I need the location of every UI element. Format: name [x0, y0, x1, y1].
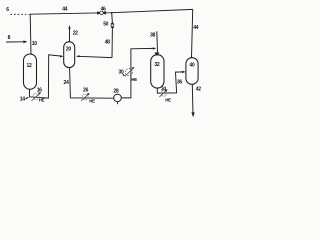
vessel 20 — [64, 42, 75, 68]
svg-text:36: 36 — [177, 80, 182, 86]
svg-text:22: 22 — [73, 30, 78, 36]
svg-text:44: 44 — [193, 25, 198, 31]
vessel 12 — [24, 54, 37, 89]
valve 46 — [97, 11, 101, 15]
svg-text:16: 16 — [37, 87, 42, 93]
vessel 40 — [186, 58, 198, 85]
svg-text:40: 40 — [189, 62, 194, 68]
wire stream 6 dotted feed — [11, 13, 30, 15]
svg-text:34: 34 — [161, 86, 166, 92]
svg-text:44: 44 — [62, 7, 67, 13]
svg-text:26: 26 — [83, 88, 88, 94]
svg-text:46: 46 — [101, 7, 106, 13]
svg-text:HE: HE — [39, 98, 45, 103]
svg-text:48: 48 — [105, 40, 110, 46]
svg-text:42: 42 — [196, 87, 201, 93]
wire bottom product arrow 42 — [191, 84, 194, 114]
svg-text:32: 32 — [154, 62, 159, 68]
svg-text:50: 50 — [103, 21, 108, 27]
svg-text:20: 20 — [66, 47, 71, 53]
wire vessel 20 bottoms 24 — [70, 68, 114, 99]
svg-text:HE: HE — [165, 98, 171, 103]
heat exchanger HE26 — [82, 94, 88, 100]
svg-text:28: 28 — [113, 89, 118, 95]
wire feed arrow 8 — [6, 41, 25, 43]
wire left downcomer to vessel 12 — [29, 14, 32, 55]
svg-text:12: 12 — [27, 63, 32, 69]
wire vessel 12 bottoms through HE up to vessel 20 — [30, 55, 62, 98]
heat exchanger HE14 — [33, 93, 39, 99]
svg-text:HE: HE — [131, 77, 137, 82]
wire pump discharge up to vessel 32 — [121, 48, 154, 98]
vessel 32 — [151, 55, 164, 88]
svg-text:10: 10 — [32, 41, 37, 47]
heat exchanger HE30 optional — [125, 69, 132, 76]
wire overhead arrow 22 — [69, 28, 71, 42]
wire vessel 32 bottoms through HE34 to vessel 40 — [157, 72, 183, 93]
svg-text:24: 24 — [64, 80, 69, 86]
pump 28 — [114, 94, 122, 102]
svg-text:38: 38 — [150, 32, 155, 38]
svg-text:14: 14 — [20, 96, 25, 102]
valve 50 — [111, 23, 115, 25]
svg-text:HE: HE — [89, 99, 95, 104]
wire feed 38 into vessel 32 top — [156, 31, 159, 48]
wire branch 48 from top line through valve 50 to vessel 20 — [111, 13, 114, 24]
heat exchanger HE34 — [161, 91, 167, 97]
wire top line 44 — [30, 9, 193, 14]
wire right downcomer into vessel 40 — [192, 9, 193, 57]
